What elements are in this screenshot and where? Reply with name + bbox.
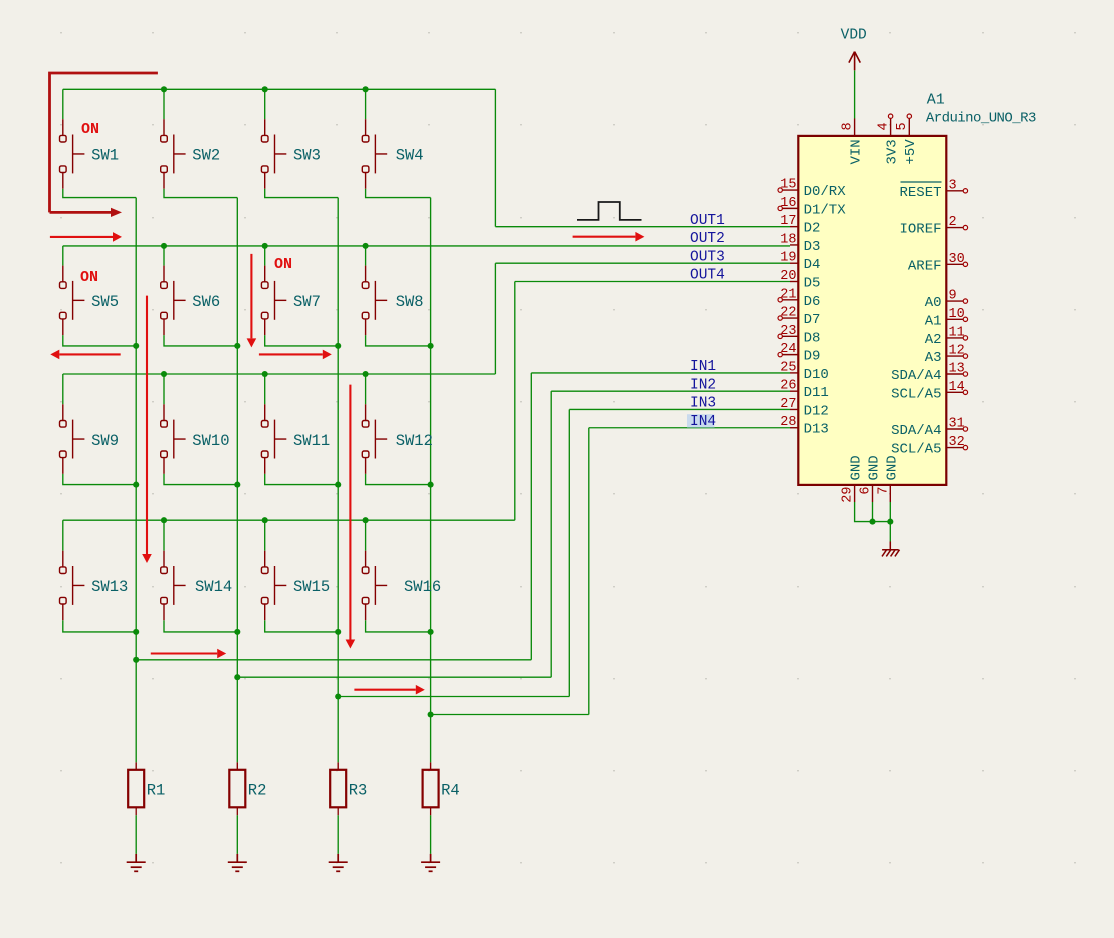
- wire row 2 bus: [63, 245, 790, 247]
- wire VDD to VIN pin: [854, 70, 856, 118]
- svg-text:D11: D11: [804, 385, 829, 401]
- pin 16 D1/TX: [778, 196, 846, 219]
- svg-text:A0: A0: [925, 295, 942, 311]
- junction row3 col3 top: [262, 371, 268, 377]
- wire SW2 top pin to row: [163, 89, 165, 119]
- svg-text:31: 31: [949, 417, 965, 432]
- annotation pulse waveform: [577, 202, 642, 220]
- wire IN2 horizontal from column 2: [237, 676, 551, 678]
- pin 8 VIN: [841, 119, 865, 165]
- wire SW11 top pin to row: [264, 374, 266, 404]
- svg-text:28: 28: [780, 415, 796, 430]
- svg-text:R4: R4: [441, 782, 460, 800]
- wire SW3 bottom to column bus: [265, 189, 339, 198]
- svg-text:IOREF: IOREF: [899, 222, 941, 238]
- wire OUT1 horizontal to pin D2: [495, 226, 790, 228]
- junction row3 col2 top: [161, 371, 167, 377]
- wire IN3 horizontal to pin D12: [569, 408, 790, 410]
- ground under R4: [421, 854, 440, 871]
- wire column 2 bus vertical: [236, 198, 238, 763]
- wire SW5 top pin to row: [62, 246, 64, 266]
- svg-text:AREF: AREF: [908, 258, 942, 274]
- annotation arrow down long col3: [349, 385, 351, 640]
- svg-text:D9: D9: [804, 349, 821, 365]
- resistor R1: [128, 762, 144, 815]
- svg-text:14: 14: [949, 380, 965, 395]
- junction column3 join row4: [335, 629, 341, 635]
- wire SW12 top pin to row: [365, 374, 367, 404]
- pin 29 GND: [841, 455, 865, 502]
- resistor R2: [229, 762, 245, 815]
- svg-text:SW15: SW15: [293, 578, 330, 596]
- wire row 1 bus: [63, 88, 496, 90]
- svg-text:ON: ON: [81, 121, 99, 138]
- svg-text:D4: D4: [804, 257, 821, 273]
- svg-text:18: 18: [780, 232, 796, 247]
- junction column4 join row4: [428, 629, 434, 635]
- svg-text:R3: R3: [349, 782, 368, 800]
- pin 6 GND: [859, 455, 883, 502]
- wire SW7 bottom to column bus: [265, 335, 339, 346]
- svg-text:SW5: SW5: [91, 293, 119, 311]
- ground at IC GND pins: [882, 542, 900, 557]
- wire IN2 horizontal to pin D11: [551, 390, 790, 392]
- wire SW15 bottom to column bus: [265, 620, 339, 632]
- svg-text:SW4: SW4: [396, 147, 424, 165]
- wire SW16 bottom to column bus: [366, 620, 431, 632]
- wire R4 bottom to ground: [430, 815, 432, 854]
- svg-text:SW11: SW11: [293, 432, 330, 450]
- pin 31 SDA/A4: [891, 417, 968, 440]
- svg-text:A2: A2: [925, 332, 942, 348]
- svg-text:OUT2: OUT2: [690, 231, 725, 247]
- svg-text:SCL/A5: SCL/A5: [891, 386, 941, 402]
- svg-text:SDA/A4: SDA/A4: [891, 368, 941, 384]
- svg-text:A1: A1: [925, 313, 942, 329]
- annotation arrow bottom row IN1: [151, 652, 217, 654]
- pin 21 D6: [778, 287, 820, 310]
- wire SW14 top pin to row: [163, 520, 165, 551]
- svg-text:29: 29: [841, 487, 856, 503]
- wire SW9 top pin to row: [62, 374, 64, 404]
- switch SW1: [60, 119, 85, 189]
- wire OUT3 vertical to row3: [494, 263, 496, 374]
- wire SW1 bottom to column bus: [63, 189, 136, 198]
- junction IN1 branch: [133, 657, 139, 663]
- svg-text:26: 26: [780, 379, 796, 394]
- svg-text:24: 24: [780, 342, 796, 357]
- junction IN2 branch: [234, 674, 240, 680]
- svg-text:A1: A1: [927, 91, 945, 108]
- svg-text:D6: D6: [804, 294, 821, 310]
- annotation arrow row2 left (bright red): [50, 236, 113, 238]
- switch SW11: [261, 404, 286, 474]
- svg-text:8: 8: [841, 122, 856, 130]
- wire SW7 top pin to row: [264, 246, 266, 266]
- pin 7 GND: [876, 455, 900, 502]
- svg-text:D3: D3: [804, 239, 821, 255]
- svg-text:D1/TX: D1/TX: [804, 202, 847, 218]
- junction row1 col3 top: [262, 86, 268, 92]
- wire IN4 horizontal to pin D13: [589, 427, 790, 429]
- svg-text:SCL/A5: SCL/A5: [891, 442, 941, 458]
- svg-text:R2: R2: [248, 782, 267, 800]
- pin 17 D2: [780, 214, 820, 237]
- svg-text:11: 11: [949, 325, 965, 340]
- svg-text:SW12: SW12: [396, 432, 433, 450]
- net label IN4: [687, 414, 715, 428]
- svg-text:SW8: SW8: [396, 293, 424, 311]
- pin 22 D7: [778, 306, 820, 329]
- annotation arrow OUT2 near IC: [573, 236, 636, 238]
- svg-text:SDA/A4: SDA/A4: [891, 423, 941, 439]
- wire R2 bottom to ground: [236, 815, 238, 854]
- junction IN4 branch: [428, 711, 434, 717]
- junction row1 col4 top: [363, 86, 369, 92]
- pin 10 A1: [925, 307, 968, 330]
- svg-text:21: 21: [780, 287, 796, 302]
- ground under R3: [329, 854, 348, 871]
- pin 28 D13: [780, 415, 829, 438]
- wire SW13 bottom to column bus: [63, 620, 136, 632]
- pin 19 D4: [780, 251, 820, 274]
- wire SW9 bottom to column bus: [63, 474, 136, 485]
- svg-text:SW3: SW3: [293, 147, 321, 165]
- svg-text:SW14: SW14: [195, 578, 232, 596]
- pin 13 SDA/A4: [891, 362, 968, 385]
- pin 30 AREF: [908, 252, 968, 275]
- switch SW9: [60, 404, 85, 474]
- switch SW8: [362, 266, 387, 336]
- wire SW8 bottom to column bus: [366, 335, 431, 346]
- svg-text:23: 23: [780, 324, 796, 339]
- svg-text:D5: D5: [804, 276, 821, 292]
- svg-text:10: 10: [949, 307, 965, 322]
- pin 5 +5V: [895, 114, 919, 165]
- wire SW6 top pin to row: [163, 246, 165, 266]
- wire column 3 bus vertical: [337, 198, 339, 763]
- svg-text:OUT1: OUT1: [690, 213, 725, 229]
- annotation arrow bottom row IN4: [354, 689, 415, 691]
- svg-text:D10: D10: [804, 367, 829, 383]
- power VDD symbol: [849, 52, 860, 71]
- junction row2 col2 top: [161, 243, 167, 249]
- annotation arrow down SW7 column: [250, 254, 252, 339]
- svg-text:+5V: +5V: [903, 139, 919, 165]
- pin 4 3V3: [877, 114, 901, 165]
- svg-text:D12: D12: [804, 403, 829, 419]
- svg-text:GND: GND: [867, 455, 883, 480]
- junction column1 join row3: [133, 482, 139, 488]
- resistor R4: [423, 762, 439, 815]
- wire IN3 vertical: [568, 409, 570, 696]
- svg-text:IN1: IN1: [690, 359, 716, 375]
- switch SW3: [261, 119, 286, 189]
- svg-text:IN4: IN4: [690, 414, 716, 430]
- svg-text:7: 7: [876, 487, 891, 495]
- svg-text:Arduino_UNO_R3: Arduino_UNO_R3: [926, 111, 1036, 127]
- wire SW3 top pin to row: [264, 89, 266, 119]
- annotation arrow right-pointing row2 bottom: [259, 353, 323, 355]
- svg-text:SW9: SW9: [91, 432, 119, 450]
- pin 32 SCL/A5: [891, 435, 968, 458]
- pin 26 D11: [780, 379, 829, 402]
- wire OUT3 horizontal to pin D4: [495, 262, 790, 264]
- wire SW14 bottom to column bus: [164, 620, 237, 632]
- junction GND pin6: [869, 519, 875, 525]
- wire SW4 bottom to column bus: [366, 189, 431, 198]
- wire OUT4 horizontal to pin D5: [515, 281, 790, 283]
- pin 20 D5: [780, 269, 820, 292]
- svg-text:32: 32: [949, 435, 965, 450]
- ground under R1: [127, 854, 146, 871]
- pin 3 RESET: [899, 178, 967, 201]
- junction column3 join row2: [335, 343, 341, 349]
- svg-text:SW7: SW7: [293, 293, 321, 311]
- svg-text:3: 3: [949, 178, 957, 193]
- wire SW16 top pin to row: [365, 520, 367, 551]
- junction row1 col2 top: [161, 86, 167, 92]
- svg-text:12: 12: [949, 344, 965, 359]
- junction column4 join row3: [428, 482, 434, 488]
- wire OUT1 vertical: [494, 89, 496, 226]
- switch SW14: [161, 551, 186, 621]
- switch SW12: [362, 404, 387, 474]
- resistor R3: [330, 762, 346, 815]
- pin 18 D3: [780, 232, 820, 255]
- junction IN3 branch: [335, 693, 341, 699]
- switch SW6: [161, 266, 186, 336]
- wire OUT4 vertical to row4: [514, 282, 516, 521]
- svg-text:D13: D13: [804, 422, 829, 438]
- wire SW1 top pin to row: [62, 89, 64, 119]
- wire SW6 bottom to column bus: [164, 335, 237, 346]
- junction row2 col3 top: [262, 243, 268, 249]
- svg-text:IN3: IN3: [690, 396, 716, 412]
- wire column 4 bus vertical: [430, 198, 432, 763]
- pin 15 D0/RX: [778, 178, 846, 201]
- ground under R2: [228, 854, 247, 871]
- switch SW4: [362, 119, 387, 189]
- wire IN3 horizontal from column 3: [338, 696, 569, 698]
- switch SW7: [261, 266, 286, 336]
- junction row4 col3 top: [262, 517, 268, 523]
- svg-text:SW16: SW16: [404, 578, 441, 596]
- svg-text:9: 9: [949, 289, 957, 304]
- pin 14 SCL/A5: [891, 380, 968, 403]
- wire IN1 horizontal to pin D10: [531, 372, 790, 374]
- pin 9 A0: [925, 289, 968, 312]
- svg-text:D8: D8: [804, 330, 821, 346]
- junction column1 join row4: [133, 629, 139, 635]
- wire IN2 vertical: [550, 391, 552, 677]
- junction row4 col4 top: [363, 517, 369, 523]
- annotation arrow left-pointing row2 bottom: [59, 353, 120, 355]
- junction column4 join row2: [428, 343, 434, 349]
- svg-text:15: 15: [780, 178, 796, 193]
- pin 27 D12: [780, 397, 829, 420]
- wire row 4 bus: [63, 519, 515, 521]
- svg-text:27: 27: [780, 397, 796, 412]
- svg-text:SW13: SW13: [91, 578, 128, 596]
- pin 2 IOREF: [899, 215, 967, 238]
- svg-text:SW1: SW1: [91, 147, 119, 165]
- wire R3 bottom to ground: [337, 815, 339, 854]
- junction column1 join row2: [133, 343, 139, 349]
- svg-text:2: 2: [949, 215, 957, 230]
- wire SW13 top pin to row: [62, 520, 64, 551]
- wire SW5 bottom to column bus: [63, 335, 136, 346]
- wire SW12 bottom to column bus: [366, 474, 431, 485]
- svg-text:30: 30: [949, 252, 965, 267]
- wire IN4 horizontal from column 4: [431, 714, 589, 716]
- pin 24 D9: [778, 342, 820, 365]
- wire row 3 bus: [63, 373, 496, 375]
- svg-text:3V3: 3V3: [885, 139, 901, 164]
- wire SW11 bottom to column bus: [265, 474, 339, 485]
- IC A1 Arduino_UNO_R3 body: [798, 136, 946, 485]
- pin 12 A3: [925, 344, 968, 367]
- svg-text:16: 16: [780, 196, 796, 211]
- svg-text:GND: GND: [884, 455, 900, 480]
- svg-text:GND: GND: [849, 455, 865, 480]
- wire IN1 vertical: [530, 373, 532, 660]
- junction row4 col2 top: [161, 517, 167, 523]
- svg-text:ON: ON: [80, 269, 98, 286]
- svg-text:OUT3: OUT3: [690, 249, 725, 265]
- switch SW10: [161, 404, 186, 474]
- switch SW2: [161, 119, 186, 189]
- wire IN4 vertical: [588, 428, 590, 715]
- wire SW15 top pin to row: [264, 520, 266, 551]
- pin 25 D10: [780, 360, 829, 383]
- svg-text:D2: D2: [804, 221, 821, 237]
- svg-text:RESET: RESET: [899, 185, 941, 201]
- svg-text:4: 4: [877, 122, 892, 130]
- wire SW4 top pin to row: [365, 89, 367, 119]
- wire SW10 top pin to row: [163, 374, 165, 404]
- svg-text:20: 20: [780, 269, 796, 284]
- junction column2 join row2: [234, 343, 240, 349]
- pin 23 D8: [778, 324, 820, 347]
- junction column2 join row3: [234, 482, 240, 488]
- svg-text:6: 6: [859, 487, 874, 495]
- wire column 1 bus vertical: [135, 198, 137, 763]
- svg-text:VDD: VDD: [841, 28, 867, 44]
- svg-text:VIN: VIN: [849, 139, 865, 164]
- svg-text:SW2: SW2: [192, 147, 220, 165]
- svg-text:5: 5: [895, 122, 910, 130]
- junction GND pin7: [887, 519, 893, 525]
- svg-text:SW6: SW6: [192, 293, 220, 311]
- junction row2 col4 top: [363, 243, 369, 249]
- wire SW2 bottom to column bus: [164, 189, 237, 198]
- switch SW15: [261, 551, 286, 621]
- pin 11 A2: [925, 325, 968, 348]
- svg-text:22: 22: [780, 306, 796, 321]
- junction column2 join row4: [234, 629, 240, 635]
- svg-text:OUT4: OUT4: [690, 268, 725, 284]
- wire IN1 horizontal from column 1: [136, 659, 531, 661]
- svg-text:25: 25: [780, 360, 796, 375]
- wire GND pin 29 down: [855, 502, 891, 522]
- wire SW10 bottom to column bus: [164, 474, 237, 485]
- annotation arrow down long col1: [146, 296, 148, 554]
- svg-text:D7: D7: [804, 312, 821, 328]
- svg-text:17: 17: [780, 214, 796, 229]
- svg-text:IN2: IN2: [690, 377, 716, 393]
- svg-text:SW10: SW10: [192, 432, 229, 450]
- wire GND pin 7 down to ground: [889, 502, 891, 542]
- junction column3 join row3: [335, 482, 341, 488]
- svg-text:R1: R1: [147, 782, 166, 800]
- wire GND pin 6 down: [872, 502, 874, 522]
- svg-text:D0/RX: D0/RX: [804, 184, 847, 200]
- svg-text:13: 13: [949, 362, 965, 377]
- switch SW16: [362, 551, 387, 621]
- svg-text:A3: A3: [925, 350, 942, 366]
- switch SW13: [60, 551, 85, 621]
- junction row3 col4 top: [363, 371, 369, 377]
- wire R1 bottom to ground: [135, 815, 137, 854]
- wire SW8 top pin to row: [365, 246, 367, 266]
- annotation arrow path top-left (dark red): [50, 73, 158, 212]
- svg-text:19: 19: [780, 251, 796, 266]
- switch SW5: [60, 266, 85, 336]
- svg-text:ON: ON: [274, 256, 292, 273]
